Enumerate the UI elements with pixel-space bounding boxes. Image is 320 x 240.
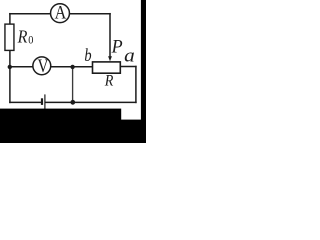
battery positive plate (long thin)	[44, 94, 46, 109]
svg-text:R: R	[17, 27, 28, 47]
wire slider drop from top	[109, 14, 111, 57]
wire rheostat right terminal	[121, 66, 136, 68]
svg-text:0: 0	[28, 34, 34, 47]
black scan border bottom-right block	[121, 120, 146, 143]
voltmeter circle	[33, 57, 51, 75]
label P	[111, 36, 123, 58]
label R	[104, 73, 114, 90]
junction dot middle	[70, 65, 74, 69]
svg-text:a: a	[124, 46, 135, 66]
voltmeter letter V	[38, 56, 49, 77]
wire bottom left to battery	[10, 101, 41, 103]
svg-text:V: V	[38, 56, 49, 77]
rheostat R body	[93, 62, 121, 73]
label R0 letter R	[17, 27, 28, 47]
wire bottom battery to right corner	[46, 101, 136, 103]
ammeter circle	[51, 4, 70, 23]
black scan border right band	[141, 0, 146, 143]
svg-text:R: R	[104, 73, 114, 90]
junction dot left	[8, 65, 12, 69]
black scan border bottom-left block	[0, 109, 121, 143]
wire left vertical	[9, 14, 11, 103]
battery negative plate (short thick)	[41, 98, 43, 105]
junction dot bottom	[70, 100, 75, 105]
wire middle vertical junction to bottom	[72, 67, 74, 103]
rheostat slider arrow	[108, 56, 112, 61]
wire top	[10, 13, 110, 15]
wire right vertical	[135, 67, 137, 103]
label R0 subscript 0	[28, 34, 34, 47]
label b	[84, 44, 91, 65]
svg-text:b: b	[84, 44, 91, 65]
ammeter letter A	[55, 1, 67, 23]
label a	[124, 46, 135, 66]
svg-text:P: P	[111, 36, 123, 58]
wire voltmeter branch	[10, 66, 92, 68]
svg-text:A: A	[55, 1, 67, 23]
resistor R0 body	[5, 24, 14, 50]
